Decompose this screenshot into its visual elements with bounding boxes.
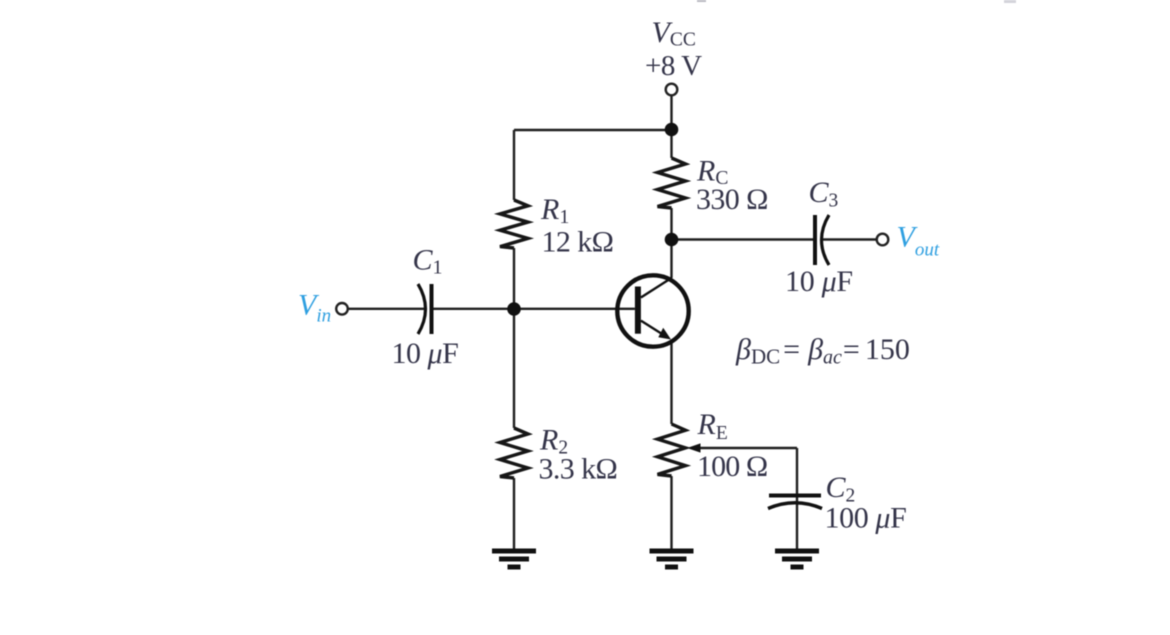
svg-text:βDC = βac = 150: βDC = βac = 150 [735, 333, 910, 369]
svg-text:RE: RE [697, 408, 728, 444]
svg-text:10 μF: 10 μF [785, 265, 853, 298]
svg-text:C3: C3 [809, 176, 839, 212]
svg-text:100 μF: 100 μF [825, 502, 907, 535]
svg-text:100 Ω: 100 Ω [697, 450, 767, 483]
svg-text:330 Ω: 330 Ω [696, 183, 768, 216]
svg-text:3.3 kΩ: 3.3 kΩ [539, 453, 618, 486]
svg-text:+8 V: +8 V [645, 50, 702, 82]
svg-text:VCC: VCC [652, 16, 696, 51]
svg-text:10 μF: 10 μF [392, 337, 459, 370]
svg-text:12 kΩ: 12 kΩ [542, 226, 614, 259]
svg-text:C1: C1 [413, 244, 443, 279]
svg-text:R1: R1 [540, 193, 569, 228]
svg-text:Vin: Vin [298, 289, 331, 327]
svg-text:Vout: Vout [897, 221, 940, 261]
